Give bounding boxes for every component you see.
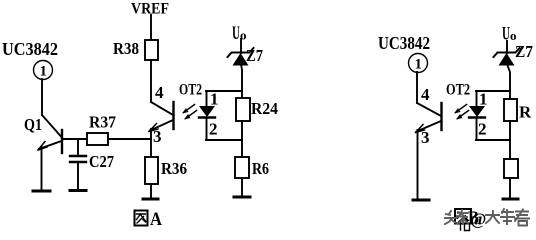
phototransistor of OT2 (left): [149, 102, 174, 132]
svg-text:R38: R38: [113, 39, 139, 58]
wire VREF to R38: [150, 15, 152, 40]
svg-text:R: R: [519, 103, 532, 122]
wire Q1 emitter to ground: [41, 147, 43, 190]
wire node 3 to R36: [150, 129, 152, 157]
svg-text:Z7: Z7: [515, 42, 533, 61]
ground (right chain): [503, 198, 518, 201]
svg-text:@: @: [471, 210, 487, 229]
svg-text:C27: C27: [89, 152, 114, 171]
wire lower resistor to ground (right): [509, 178, 511, 198]
resistor R24: [236, 98, 278, 121]
wire R24 to R6: [241, 121, 243, 157]
svg-text:R37: R37: [89, 113, 116, 132]
svg-text:3: 3: [153, 127, 162, 146]
LED of OT2 (left): [199, 91, 215, 140]
wire R36 to ground: [150, 184, 152, 198]
LED of OT2 (right): [469, 91, 485, 140]
ground (R6 chain): [234, 196, 250, 199]
svg-text:3: 3: [421, 128, 430, 147]
svg-text:1: 1: [210, 90, 219, 109]
wire Z7 to R24: [241, 64, 242, 98]
svg-text:UC3842: UC3842: [378, 33, 430, 53]
svg-text:1: 1: [40, 64, 48, 80]
wire LED branch top (left): [206, 90, 242, 92]
svg-text:Z7: Z7: [246, 46, 263, 65]
wire R to lower resistor (right): [509, 121, 511, 159]
figure label A (CJK tu drawn as path): [135, 211, 148, 226]
svg-text:R6: R6: [252, 159, 269, 178]
transistor Q1: [38, 115, 62, 153]
svg-text:4: 4: [421, 85, 430, 104]
wire R38 to pin 4 of OT2: [150, 60, 152, 102]
wire Q1 base to R37: [62, 138, 87, 140]
resistor R (right): [504, 99, 532, 122]
pin 1 bubble of UC3842 (right): [409, 54, 428, 73]
ground (Q1 emitter): [33, 190, 50, 193]
resistor (right lower, unlabeled): [504, 159, 518, 178]
svg-text:OT2: OT2: [179, 82, 202, 99]
svg-text:2: 2: [209, 120, 218, 139]
figure label B (CJK tu drawn as path): [455, 209, 471, 231]
resistor R37: [87, 113, 116, 146]
wire R37 to node 3: [108, 138, 151, 140]
svg-text:R24: R24: [251, 99, 278, 118]
svg-text:4: 4: [155, 83, 164, 102]
optocoupler light arrows (left): [182, 105, 197, 120]
wire LED branch bottom (left): [206, 139, 242, 141]
wire pin1 to pin4 node (right): [416, 72, 418, 103]
svg-text:UC3842: UC3842: [2, 39, 58, 59]
svg-text:1: 1: [415, 57, 423, 73]
wire LED branch bottom (right): [476, 139, 510, 141]
pin 1 bubble of UC3842 (left): [34, 61, 53, 80]
svg-text:A: A: [150, 209, 162, 230]
ground (R36): [143, 198, 158, 201]
wire emitter to ground (right): [417, 130, 419, 199]
resistor R6: [235, 157, 269, 178]
wire Z7 to R (right): [507, 64, 510, 99]
resistor R36: [145, 157, 187, 184]
capacitor C27: [70, 139, 86, 190]
phototransistor of OT2 (right): [416, 103, 442, 133]
wire LED branch top (right): [476, 90, 510, 92]
svg-text:OT2: OT2: [446, 82, 470, 99]
svg-text:1: 1: [479, 90, 488, 109]
svg-text:Q1: Q1: [24, 115, 42, 134]
resistor R38: [113, 39, 158, 60]
watermark toutiao@daniannjun (gray CJK drawn as paths): [445, 209, 529, 226]
optocoupler light arrows (right): [454, 105, 469, 120]
svg-text:o: o: [510, 28, 517, 43]
ground (right OT2 emitter): [413, 199, 429, 202]
svg-text:R36: R36: [161, 159, 187, 178]
wire R6 to ground: [241, 178, 243, 196]
zener diode Z7 (right): [494, 41, 520, 66]
svg-text:U: U: [232, 23, 240, 44]
svg-text:2: 2: [478, 120, 487, 139]
ground (C27): [70, 189, 86, 192]
wire pin1 to Q1 collector: [41, 79, 43, 115]
zener diode Z7 (left): [228, 39, 254, 66]
